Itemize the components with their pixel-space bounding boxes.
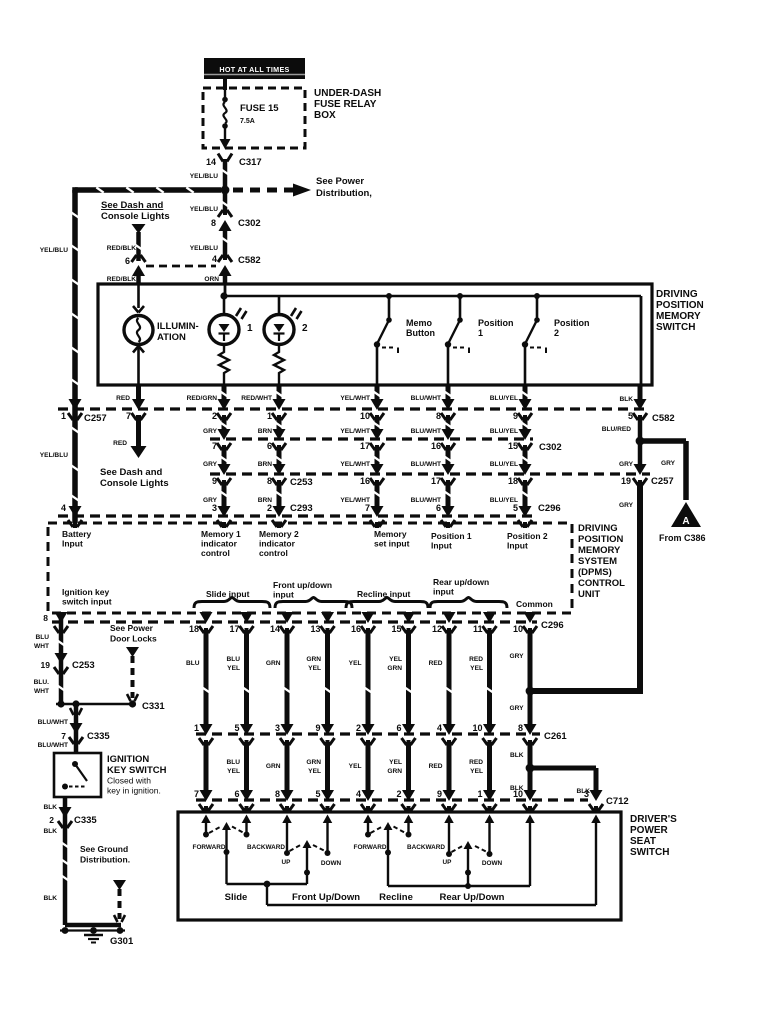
wire door locks branch [126,647,139,701]
svg-text:Button: Button [406,328,435,338]
svg-text:8: 8 [267,476,272,486]
node C331 junction [56,700,165,712]
svg-text:GRN: GRN [306,759,321,766]
fuse value label [240,103,279,125]
svg-text:15: 15 [391,624,401,634]
BLK label [43,804,57,811]
svg-text:1: 1 [477,789,482,799]
seat switch rear up/down contacts [444,815,494,858]
svg-text:RED/WHT: RED/WHT [241,395,272,402]
svg-text:6: 6 [267,441,272,451]
svg-text:1: 1 [267,411,272,421]
connector row C293/C296 dashed plane [58,514,533,517]
memory 2 indicator control label [259,529,299,558]
wire GRN/YEL C261 to C712 [306,742,327,792]
svg-text:C261: C261 [544,731,567,742]
svg-text:4: 4 [437,723,442,733]
svg-text:7: 7 [126,411,131,421]
wire main bus left (YEL/BLU) [75,187,221,193]
see power door locks label [110,623,157,644]
slide input label and brace [194,589,270,608]
connector C712 pin 4 [356,789,375,812]
svg-text:8: 8 [518,723,523,733]
svg-text:10: 10 [472,723,482,733]
switch front up/down blade [290,840,326,884]
svg-text:WHT: WHT [34,643,49,650]
svg-text:3: 3 [275,723,280,733]
wire RED/YEL C261 to C712 [469,742,489,792]
svg-text:UP: UP [282,859,292,866]
connector row C296 dashed plane [52,620,564,631]
wire recline/rear common to pin 10 [388,815,535,890]
hot-at-all-times banner [204,58,305,79]
wire RED/GRN [187,385,228,403]
svg-text:GRY: GRY [509,705,524,712]
svg-text:3: 3 [584,789,589,799]
wire BLK C261 to C712 [510,742,530,792]
svg-text:7: 7 [61,731,66,741]
wire BLU/WHT C331 to C335 [38,704,82,753]
connector C261 pin 1 [194,723,213,746]
wire BLU/WHT [411,385,452,403]
svg-text:FORWARD: FORWARD [354,844,387,851]
svg-text:C296: C296 [538,503,561,514]
connector C293 pin 2 [267,503,313,528]
connector row C257/C582 dashed plane [58,407,650,410]
connector C582 pin 5 [628,399,675,424]
wires row2 to row3 with colour labels [203,447,529,468]
connector C296 pin 18 [189,612,213,634]
svg-text:RED/BLK: RED/BLK [107,245,137,252]
svg-text:Input: Input [62,539,83,549]
svg-text:19: 19 [41,660,51,670]
svg-text:8: 8 [275,789,280,799]
connector pin 10 [360,399,384,421]
connector pin 17 [431,464,455,486]
connector C257 pin 1 (left) [61,399,107,424]
svg-text:10: 10 [360,411,370,421]
connector C296 pin 17 [229,612,253,634]
position 1 input label [431,531,472,551]
DPMS control unit box (dashed) [48,523,572,613]
svg-text:WHT: WHT [34,688,49,695]
wire BLK ignition to ground [61,797,68,925]
switch slide blade [209,822,244,884]
connector C261 pin 4 [437,723,456,746]
wire slide/front common [227,881,308,905]
connector C253 pin 8 [267,464,313,488]
connector pin 16 [431,429,455,451]
wires row1 to row2 with colour labels [203,417,529,435]
svg-text:FUSE 15: FUSE 15 [240,103,279,114]
connector C261 pin 10 [472,723,496,746]
svg-text:MEMORY: MEMORY [578,545,621,556]
svg-text:11: 11 [473,624,483,634]
wire GRN C296 to C261 [266,630,291,726]
seat switch front up/down contacts [282,815,332,857]
see power distribution label [316,176,372,199]
svg-text:POSITION: POSITION [656,300,704,311]
connector pin 2 [212,399,231,421]
svg-text:YEL: YEL [308,665,321,672]
svg-text:C331: C331 [142,701,165,712]
svg-text:DRIVING: DRIVING [578,523,618,534]
svg-text:YEL/WHT: YEL/WHT [340,395,370,402]
connector C712 pin 6 [234,789,253,812]
svg-text:Slide: Slide [225,892,248,903]
ignition key switch input label [62,587,112,607]
svg-text:POSITION: POSITION [578,534,624,545]
connector pin 7 RED [126,399,146,421]
svg-text:See Power: See Power [316,176,364,187]
svg-text:1: 1 [478,328,483,338]
connector C253 pin 19 [41,653,95,675]
svg-text:6: 6 [436,503,441,513]
seat switch slide contacts [201,815,251,838]
svg-text:input: input [433,587,454,597]
svg-text:HOT AT ALL TIMES: HOT AT ALL TIMES [219,65,289,74]
svg-text:YEL: YEL [349,660,362,667]
connector C261 pin 2 [356,723,375,746]
svg-text:Distribution.: Distribution. [80,855,130,865]
connector C296 pin 14 [270,612,294,634]
connector pin 6 (illumination feed) [125,254,146,276]
BLU WHT label 2 [34,679,50,695]
connector C257 pin 19 [621,464,674,487]
svg-text:Front up/down: Front up/down [273,580,332,590]
connector row C712 dashed plane [196,796,629,807]
svg-text:BLU.: BLU. [34,679,50,686]
svg-text:9: 9 [437,789,442,799]
svg-text:BRN: BRN [258,461,273,468]
svg-text:BLU: BLU [226,656,240,663]
svg-text:DOWN: DOWN [321,860,342,867]
svg-text:Memory: Memory [374,529,407,539]
ignition key switch label [107,754,167,796]
backward label (slide) [247,844,285,851]
wire YEL/BLU C302 to C582 [190,226,229,258]
battery input label [62,529,92,549]
svg-text:GRY: GRY [203,461,218,468]
svg-text:Input: Input [431,541,452,551]
driver's power seat switch label [630,814,677,858]
svg-text:18: 18 [508,476,518,486]
svg-text:POWER: POWER [630,825,669,836]
svg-text:4: 4 [61,503,66,513]
illumination label [157,321,199,343]
wires row3 to row4 with colour labels [203,482,529,508]
fuse F15 7.5A [220,90,231,149]
svg-text:C302: C302 [539,442,562,453]
svg-text:BLU: BLU [226,759,240,766]
svg-text:RED/BLK: RED/BLK [107,276,137,283]
connector C712 pin 3 [584,789,603,812]
slide label [225,892,248,903]
svg-text:Recline: Recline [379,892,413,903]
front up/down input label and brace [273,580,352,608]
switch: position 1 [445,293,469,385]
svg-text:See Dash and: See Dash and [100,467,162,478]
wire ORN to LED bus [220,284,227,300]
connector C296 pin 12 [432,612,456,634]
connector pin 17 [360,429,384,451]
svg-text:BACKWARD: BACKWARD [247,844,285,851]
svg-text:YEL: YEL [389,759,402,766]
svg-text:GRN: GRN [266,763,281,770]
wire YEL C261 to C712 [349,742,368,792]
svg-text:BLK: BLK [510,752,524,759]
connector pin 18 [508,464,532,486]
wire banner to fuse box [223,79,227,90]
connector C302 pin 8 [211,209,261,231]
svg-text:set input: set input [374,539,410,549]
svg-text:2: 2 [212,411,217,421]
driver's power seat switch box [178,812,621,920]
svg-text:RED: RED [113,440,127,447]
svg-text:IGNITION: IGNITION [107,754,149,765]
see dash and console lights (lower) label [100,467,169,489]
BLU/WHT label 3 [38,742,68,749]
svg-text:key in ignition.: key in ignition. [107,786,161,796]
connector row C253/C257 dashed plane [210,472,650,475]
svg-text:4: 4 [212,254,217,264]
svg-text:Recline input: Recline input [357,589,411,599]
svg-text:switch input: switch input [62,597,112,607]
wire C582 plane dashes [146,265,216,268]
connector C296 pin 15 [391,612,415,634]
svg-text:YEL: YEL [470,768,483,775]
driving position memory switch box [98,284,652,385]
wire RED out arrow to dash/console lights [113,415,146,458]
switch rear up/down blade [452,841,488,886]
wire right column to common node [532,688,643,694]
wire YEL/GRN C261 to C712 [387,742,408,792]
svg-text:YEL: YEL [389,656,402,663]
svg-text:7: 7 [194,789,199,799]
wire YEL C296 to C261 [349,630,372,726]
svg-text:BLU/YEL: BLU/YEL [490,395,518,402]
svg-text:4: 4 [356,789,361,799]
svg-text:See Power: See Power [110,623,154,633]
position 2 label [554,318,590,338]
connector C261 pin 9 [315,723,334,746]
svg-text:DRIVING: DRIVING [656,289,698,300]
svg-text:GRN: GRN [306,656,321,663]
svg-text:indicator: indicator [259,539,296,549]
BLK label 3 [43,895,57,902]
svg-text:GRY: GRY [619,461,634,468]
switch recline blade [371,822,406,886]
wire BLU/YEL C296 to C261 [226,630,250,726]
svg-text:C257: C257 [84,413,107,424]
see dash and console lights (top) label [101,200,170,222]
svg-text:A: A [682,516,689,527]
svg-text:C712: C712 [606,796,629,807]
svg-text:C582: C582 [238,255,261,266]
svg-text:input: input [273,590,294,600]
wire RED/WHT [241,385,282,403]
connector C335 pin 7 [61,723,110,745]
svg-text:UNIT: UNIT [578,589,600,600]
svg-text:SWITCH: SWITCH [656,322,695,333]
wire YEL/GRN C296 to C261 [387,630,412,726]
wire GRN/YEL C296 to C261 [306,630,331,726]
svg-text:YEL/BLU: YEL/BLU [40,452,68,459]
svg-text:Position 1: Position 1 [431,531,472,541]
svg-text:16: 16 [360,476,370,486]
down label (front) [321,860,342,867]
svg-text:5: 5 [234,723,239,733]
svg-text:Battery: Battery [62,529,92,539]
switch: position 2 [522,293,546,385]
wire dash/console lights feed RED/BLK [107,224,146,261]
svg-text:Common: Common [516,599,553,609]
svg-text:Closed with: Closed with [107,776,151,786]
svg-text:18: 18 [189,624,199,634]
node common junction on GRY column [526,687,535,696]
wire BLK [619,385,640,403]
svg-text:SEAT: SEAT [630,836,656,847]
memo button label [406,318,435,338]
svg-text:C253: C253 [72,660,95,671]
backward label (recline) [407,844,445,851]
svg-text:15: 15 [508,441,518,451]
svg-text:2: 2 [267,503,272,513]
svg-text:2: 2 [302,323,308,334]
svg-text:BACKWARD: BACKWARD [407,844,445,851]
svg-text:BLU/RED: BLU/RED [602,426,632,433]
svg-text:DRIVER'S: DRIVER'S [630,814,677,825]
svg-text:YEL: YEL [227,665,240,672]
svg-text:1: 1 [247,323,253,334]
svg-text:YEL/BLU: YEL/BLU [190,173,218,180]
wires C712 into seat switch box [206,808,596,812]
svg-text:Memo: Memo [406,318,433,328]
svg-text:FUSE RELAY: FUSE RELAY [314,99,377,110]
svg-text:C253: C253 [290,477,313,488]
forward label (recline) [354,844,387,851]
connector pin 9 [212,464,231,486]
wire RED/BLK into switch box [107,271,139,284]
svg-text:8: 8 [436,411,441,421]
svg-text:RED: RED [469,759,483,766]
svg-text:C302: C302 [238,218,261,229]
wire see-power-distribution dashed arrow [233,184,311,197]
wire GRY C296 to C261 [509,630,530,726]
switch: ignition key [62,761,87,790]
position 2 input label [507,531,548,551]
svg-text:Memory 1: Memory 1 [201,529,241,539]
connector pin 7 [212,429,231,451]
svg-text:RED/GRN: RED/GRN [187,395,218,402]
svg-text:2: 2 [396,789,401,799]
svg-text:(DPMS): (DPMS) [578,567,612,578]
connector pin 6 [267,429,286,451]
svg-text:7: 7 [212,441,217,451]
svg-text:Rear Up/Down: Rear Up/Down [440,892,505,903]
from C386 label [659,533,706,543]
svg-text:BLK: BLK [619,396,633,403]
svg-text:YEL/BLU: YEL/BLU [190,245,218,252]
svg-text:YEL/WHT: YEL/WHT [340,461,370,468]
svg-text:GRY: GRY [203,428,218,435]
svg-text:SYSTEM: SYSTEM [578,556,617,567]
svg-text:ORN: ORN [204,276,219,283]
svg-text:BLU: BLU [35,634,49,641]
svg-text:BLU/WHT: BLU/WHT [411,428,441,435]
svg-text:G301: G301 [110,936,134,947]
wire ground distribution branch [113,880,126,922]
svg-text:6: 6 [396,723,401,733]
svg-text:CONTROL: CONTROL [578,578,625,589]
svg-text:10: 10 [513,789,523,799]
svg-text:RED: RED [429,763,443,770]
svg-text:SWITCH: SWITCH [630,847,669,858]
connector row C261 dashed plane [196,731,567,742]
svg-text:6: 6 [234,789,239,799]
wire left YEL/BLU main drop [40,190,79,523]
svg-text:YEL/BLU: YEL/BLU [190,206,218,213]
svg-text:Console Lights: Console Lights [101,211,170,222]
connector C712 pin 10 [513,789,537,812]
connector C712 pin 5 [315,789,334,812]
svg-text:KEY SWITCH: KEY SWITCH [107,765,167,776]
svg-text:Memory 2: Memory 2 [259,529,299,539]
svg-text:2: 2 [356,723,361,733]
svg-text:FORWARD: FORWARD [193,844,226,851]
connector C317 pin 14 [206,154,262,169]
LED indicator 1 with resistor [209,296,253,385]
svg-text:7.5A: 7.5A [240,118,255,125]
up label (front) [282,859,292,866]
svg-text:See Dash and: See Dash and [101,200,163,211]
lamp: illumination bulb [124,284,153,385]
memory 1 indicator control label [201,529,241,558]
svg-text:From C386: From C386 [659,533,706,543]
ground G301 [84,935,134,947]
svg-text:16: 16 [431,441,441,451]
connector pin 1 [267,399,286,421]
wire BLU C296 to C261 [186,630,210,726]
svg-text:C257: C257 [651,476,674,487]
wire RED C261 to C712 [429,742,449,792]
memory set input label [374,529,410,549]
svg-text:YEL: YEL [227,768,240,775]
svg-text:UNDER-DASH: UNDER-DASH [314,88,381,99]
LED indicator 2 with resistor [264,296,308,385]
svg-text:control: control [259,548,288,558]
svg-text:GRY: GRY [619,502,634,509]
common label [516,599,553,609]
svg-text:BRN: BRN [258,428,273,435]
svg-text:YEL/WHT: YEL/WHT [340,428,370,435]
connector pin 6 [436,503,455,528]
wire common to C712 pin 3 [267,815,601,906]
svg-text:19: 19 [621,476,631,486]
connector C296 pin 5 [513,503,561,528]
wire GRY right column to C257 [619,445,640,468]
connector C296 pin 16 [351,612,375,634]
front up/down label [292,892,360,903]
svg-text:6: 6 [125,256,130,266]
svg-text:1: 1 [61,411,66,421]
svg-text:GRN: GRN [387,768,402,775]
under-dash fuse relay box (dashed) [203,88,305,148]
svg-text:BLK: BLK [43,828,57,835]
svg-text:ILLUMIN-: ILLUMIN- [157,321,199,332]
svg-text:9: 9 [315,723,320,733]
see ground distribution label [80,844,130,865]
